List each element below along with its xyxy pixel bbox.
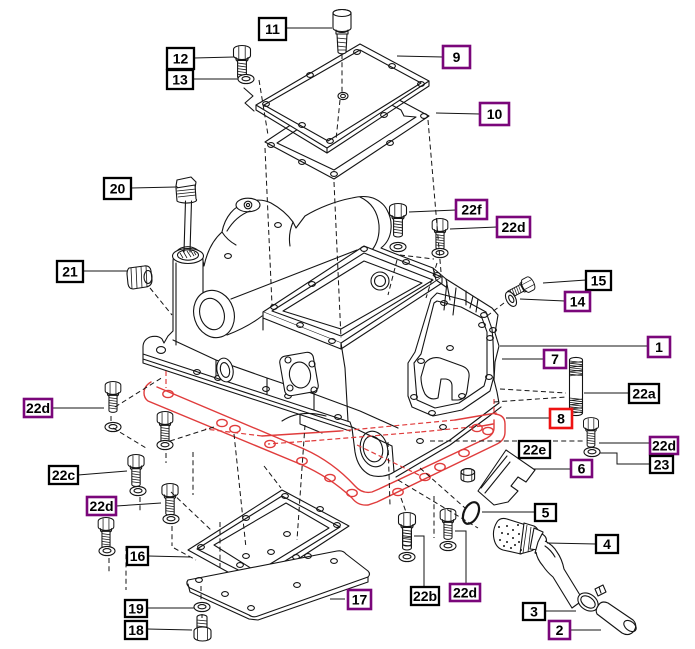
- wire zigzag under washer 13: [244, 88, 254, 111]
- svg-text:22c: 22c: [52, 467, 76, 483]
- bolt 22d right: [584, 418, 599, 447]
- side face 7 pentagon: [408, 293, 494, 416]
- wire leader 19: [147, 607, 194, 609]
- label 18: [125, 621, 147, 639]
- breather 4: [493, 518, 583, 608]
- label 22d left mid: [87, 497, 116, 515]
- alignment dashed lines: [109, 54, 584, 618]
- bolt 15: [505, 275, 537, 301]
- svg-text:22f: 22f: [461, 202, 482, 218]
- bracket 6: [478, 450, 535, 505]
- front face left round hole: [215, 357, 236, 384]
- wire dashed bolt 18 19: [201, 586, 202, 618]
- svg-text:14: 14: [570, 294, 586, 310]
- label 22d top right: [497, 217, 530, 237]
- deck rim outer: [263, 246, 442, 343]
- washer of 22f: [390, 242, 406, 251]
- wire leader 21: [83, 270, 127, 272]
- svg-text:9: 9: [453, 49, 461, 65]
- deck rim inner: [272, 253, 433, 336]
- wire leader 22d left mid: [116, 503, 161, 506]
- back right wall lines: [433, 268, 478, 312]
- label 22b: [411, 587, 439, 605]
- label 23: [650, 456, 673, 473]
- label 22f: [456, 200, 487, 219]
- svg-text:12: 12: [173, 51, 189, 67]
- washer of 22d top right: [432, 248, 448, 257]
- wire dashed cover-left: [259, 80, 272, 305]
- wire dashed left column: [109, 377, 390, 590]
- side face rib to deck: [444, 282, 456, 315]
- flange ear hole: [157, 347, 166, 354]
- label 20: [104, 178, 131, 199]
- svg-text:2: 2: [556, 622, 564, 638]
- wire dashed stud 22a: [494, 389, 566, 402]
- nut 22e: [461, 469, 475, 482]
- label 7: [544, 350, 566, 368]
- flange deck holes: [194, 370, 201, 375]
- bottom cover plate 17: [187, 550, 370, 620]
- wire dashed to breather: [398, 468, 478, 528]
- hose 2: [596, 602, 638, 635]
- hump inner arcs: [222, 211, 293, 246]
- label 22d bottom: [450, 584, 480, 601]
- wire leader 22a: [584, 392, 629, 394]
- wire leader 4: [547, 543, 596, 544]
- label 22d far left: [24, 399, 52, 417]
- svg-text:22d: 22d: [652, 438, 676, 454]
- label 22c: [49, 466, 78, 484]
- left bolt near ring: [157, 412, 173, 443]
- wire dashed 22b: [401, 496, 434, 538]
- label 21: [57, 261, 83, 282]
- plug 21: [127, 266, 152, 289]
- web under oval: [282, 413, 326, 433]
- svg-text:20: 20: [110, 181, 126, 197]
- bolt 11: [333, 10, 351, 54]
- washer 19: [194, 602, 210, 611]
- svg-text:23: 23: [654, 457, 670, 473]
- deck threaded hole: [371, 272, 389, 290]
- label 5: [535, 504, 556, 521]
- wire leader 16: [148, 556, 190, 557]
- label 22d right: [650, 437, 678, 454]
- label 9: [443, 46, 470, 68]
- svg-text:22e: 22e: [523, 442, 547, 458]
- left column bolt a: [105, 382, 121, 413]
- leader lines: [52, 28, 650, 630]
- side face holes: [441, 301, 448, 306]
- label 14: [565, 292, 590, 311]
- bolt 12: [234, 46, 251, 80]
- wire dashed washer 14: [487, 303, 504, 316]
- right shoulder holes: [481, 313, 488, 318]
- wire leader 18: [147, 629, 192, 630]
- wire leader 17: [330, 598, 345, 600]
- wire leader 22d top right: [450, 227, 497, 229]
- svg-text:22d: 22d: [26, 400, 50, 416]
- label 4: [596, 535, 618, 553]
- svg-text:3: 3: [530, 604, 538, 620]
- wire leader 3: [545, 610, 576, 612]
- wire leader 14: [520, 299, 565, 301]
- svg-text:22d: 22d: [89, 498, 113, 514]
- wire leader 7: [502, 358, 544, 360]
- label 3: [523, 603, 545, 620]
- wire leader 8: [506, 417, 550, 419]
- washer of 22c: [130, 486, 146, 495]
- bolt 22d bottom: [440, 509, 456, 540]
- bolt 22b: [399, 513, 416, 550]
- wire leader 10: [436, 113, 480, 114]
- wire leader 22d bottom: [455, 531, 466, 583]
- svg-text:16: 16: [130, 548, 146, 564]
- housing silhouette: [143, 197, 499, 477]
- cylinder left bore: [188, 285, 241, 343]
- svg-text:19: 19: [128, 601, 144, 617]
- wire leader 2: [570, 629, 601, 631]
- label 16: [127, 547, 148, 565]
- bolt 22d top right: [432, 219, 448, 250]
- bottom gasket plate 16: [188, 490, 349, 587]
- svg-text:22d: 22d: [453, 585, 477, 601]
- washer 14: [503, 290, 519, 308]
- label 13: [167, 70, 193, 89]
- body base line on flange: [173, 340, 398, 428]
- svg-text:8: 8: [557, 411, 565, 427]
- label 17: [348, 590, 371, 609]
- label 22e: [519, 441, 550, 458]
- label 10: [480, 103, 509, 125]
- left column washer b: [99, 546, 115, 555]
- clamp 3: [574, 585, 606, 615]
- wire dashed cover-right to deck: [428, 120, 441, 272]
- washer of 22d left mid: [163, 514, 179, 523]
- svg-text:7: 7: [551, 351, 559, 367]
- washer of 22d bottom: [440, 541, 456, 550]
- svg-text:17: 17: [352, 592, 368, 608]
- corner boss edges: [352, 427, 394, 472]
- wire leader 23: [600, 453, 650, 464]
- o-ring 5: [460, 500, 483, 527]
- washer 23: [584, 447, 600, 456]
- deck corner holes: [271, 305, 278, 310]
- svg-text:18: 18: [128, 622, 144, 638]
- washer 13: [238, 74, 254, 83]
- cylinder right cap arc: [360, 197, 379, 250]
- wire leader 15: [543, 280, 586, 283]
- wire leader 20: [131, 187, 176, 188]
- stud 20: [176, 177, 197, 252]
- wire leader 13: [193, 78, 238, 80]
- wire dashed 22e line: [430, 440, 584, 442]
- label 11: [259, 18, 286, 40]
- wire leader 22b: [414, 536, 424, 587]
- wire leader 22d far left: [52, 407, 104, 409]
- label 1: [648, 337, 670, 357]
- svg-text:22d: 22d: [501, 219, 525, 235]
- wire leader 6: [533, 468, 571, 470]
- wire leader 1: [500, 345, 648, 347]
- left column washer a: [105, 422, 121, 431]
- wire leader 11: [286, 27, 332, 29]
- flange side thickness lines: [143, 354, 501, 477]
- svg-text:1: 1: [655, 339, 663, 355]
- wire leader 5: [482, 511, 535, 513]
- cover gasket 10: [265, 79, 429, 179]
- svg-text:4: 4: [603, 536, 611, 552]
- bolt 22f: [390, 204, 407, 238]
- top cover plate 9: [256, 44, 429, 153]
- front oval flange opening: [279, 351, 319, 396]
- left washer near ring: [157, 440, 173, 449]
- svg-text:6: 6: [578, 461, 586, 477]
- label 19: [125, 600, 147, 617]
- wire dashed 22f: [388, 260, 397, 295]
- wire leader 12: [194, 57, 234, 58]
- tower sides: [176, 262, 203, 345]
- red gasket 8 outline: [144, 371, 505, 505]
- stud 22a: [570, 357, 583, 415]
- red gasket holes: [163, 390, 173, 397]
- left column bolt b: [98, 518, 114, 549]
- svg-text:22b: 22b: [413, 588, 437, 604]
- wire dashed cover-bottom to deck: [334, 182, 341, 338]
- label 8: [550, 409, 572, 428]
- label 2: [549, 621, 570, 639]
- bolt 22d left mid: [162, 484, 178, 516]
- label 12: [167, 48, 194, 69]
- label 6: [571, 460, 592, 477]
- svg-text:13: 13: [172, 72, 188, 88]
- main housing 1: [143, 197, 501, 478]
- svg-text:10: 10: [487, 106, 503, 122]
- label 22a: [629, 384, 659, 403]
- wire dashed 22d top right: [400, 255, 437, 298]
- wire leader 9: [397, 56, 443, 57]
- hump pad + hole: [236, 198, 260, 212]
- label 15: [586, 271, 611, 290]
- svg-text:15: 15: [591, 273, 607, 289]
- bolt 22c: [128, 455, 144, 487]
- wall under deck front: [263, 318, 348, 421]
- wire dashed bolt11: [336, 54, 342, 140]
- wire leader 22f: [409, 210, 456, 212]
- big corner round hole: [357, 428, 392, 469]
- svg-text:22a: 22a: [632, 386, 656, 402]
- tower boss top ellipse: [173, 249, 204, 264]
- cylinder bottom edge: [227, 250, 357, 335]
- wire leader 22d right: [599, 442, 650, 444]
- washer of 22b: [399, 552, 415, 561]
- deck inner shelf: [283, 261, 422, 329]
- wire leader 22c: [78, 471, 127, 475]
- bolt 18: [194, 615, 211, 641]
- svg-text:21: 21: [62, 264, 78, 280]
- svg-text:11: 11: [265, 21, 280, 37]
- wire dashed plug 21: [150, 288, 172, 315]
- svg-text:5: 5: [542, 505, 550, 521]
- side face kidney cutout: [421, 358, 469, 400]
